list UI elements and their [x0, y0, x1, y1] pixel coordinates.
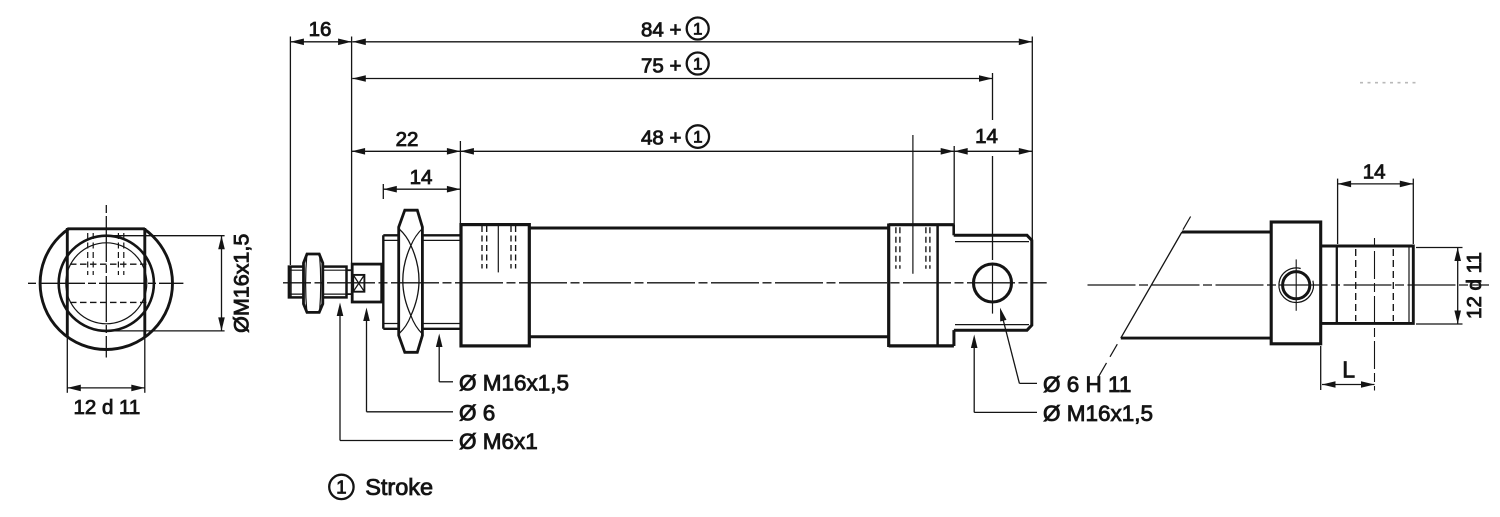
dimension 14 rear line	[954, 148, 1032, 155]
svg-text:L: L	[1342, 356, 1355, 382]
svg-text:Ø 6: Ø 6	[459, 400, 495, 425]
right view hole vertical centerline	[1295, 259, 1297, 310]
svg-text:48 +: 48 +	[641, 127, 681, 150]
dimension 14 collar extension stub	[382, 184, 384, 199]
right view dim L line	[1322, 381, 1375, 388]
extension line at clevis end	[1031, 37, 1033, 241]
end view right flat chord	[143, 228, 146, 337]
dimension 16 text	[309, 18, 332, 41]
front head block	[461, 225, 529, 346]
dimension OM16x1,5 top extension line	[106, 235, 225, 237]
right view tube top	[1182, 231, 1271, 234]
right view thread start edge	[1336, 246, 1338, 323]
svg-text:84 +: 84 +	[641, 19, 681, 42]
end view top chord edge	[67, 227, 145, 230]
end view vertical centerline	[105, 205, 107, 358]
dimension 84+stroke line	[352, 39, 1032, 46]
right view clevis extension outline	[1321, 246, 1414, 323]
rod neck	[347, 270, 353, 294]
dimension 16 line	[290, 39, 351, 46]
main view horizontal centerline	[283, 282, 1047, 284]
dimension OM16x1,5 bottom extension line	[106, 330, 225, 332]
front port hidden thread lines	[482, 226, 516, 269]
svg-text:Ø M16x1,5: Ø M16x1,5	[459, 370, 569, 395]
end view left flat chord	[66, 228, 69, 337]
front port centerline	[497, 225, 499, 273]
dimension 14 rear text	[975, 125, 998, 148]
svg-text:Ø M6x1: Ø M6x1	[459, 429, 538, 454]
rear clevis tang outline	[954, 235, 1032, 346]
label OM6x1 rod thread	[459, 429, 538, 454]
dimension OM16x1,5 line with arrows	[218, 236, 225, 331]
rod hex nut	[304, 254, 323, 312]
bearing collar outer thread lines	[383, 235, 461, 328]
svg-text:1: 1	[336, 477, 346, 498]
extension line at head left	[459, 141, 461, 224]
label O6H11 hole	[1043, 372, 1131, 397]
legend stroke text	[365, 474, 433, 500]
svg-text:ØM16x1,5: ØM16x1,5	[230, 234, 254, 333]
faint scan artifact dotted line	[1360, 82, 1416, 84]
right view end face inner line	[1408, 246, 1410, 323]
right view thread depth centerline	[1374, 238, 1376, 391]
dimension 75+stroke text	[641, 53, 709, 78]
svg-text:12 d 11: 12 d 11	[1463, 252, 1486, 319]
bearing collar minor thread lines	[383, 240, 461, 323]
dimension 48+stroke text	[641, 125, 709, 149]
rod wrench flats block	[352, 264, 382, 302]
svg-text:14: 14	[410, 166, 433, 189]
svg-text:16: 16	[309, 18, 332, 41]
end view hidden hole lines A	[88, 233, 94, 275]
right view tube bottom	[1121, 337, 1271, 340]
end view hidden hole lines B	[118, 233, 123, 275]
cylinder tube	[529, 228, 888, 337]
dimension 12d11 line with arrows	[67, 385, 145, 392]
right view break line	[1098, 217, 1191, 378]
right view hole outer thread circle	[1279, 268, 1314, 303]
dimension OM16x1,5 text (rotated)	[230, 234, 254, 333]
leader OM6x1 rod thread	[337, 303, 453, 441]
dimension 48+stroke line	[460, 148, 954, 155]
label OM16x1,5 front	[459, 370, 569, 395]
end view hidden port line upper	[70, 263, 147, 265]
wrench flats square with cross	[353, 275, 364, 292]
end view thread minor circle	[66, 243, 147, 324]
piston rod thread M6 outline	[289, 267, 347, 298]
right view dim 12d11 line	[1454, 248, 1461, 325]
dimension 14 collar line	[383, 186, 460, 193]
right view dim 14 extensions	[1338, 179, 1414, 244]
leader O6H11 hole	[1000, 308, 1037, 384]
rear clevis inner edges	[955, 242, 1029, 325]
dimension 22 line	[352, 148, 461, 155]
right view hidden thread lines	[1356, 249, 1394, 321]
extension line at flats face	[351, 37, 353, 264]
leader O6 rod	[363, 308, 453, 412]
svg-text:1: 1	[693, 20, 702, 39]
dimension 12d11 text	[73, 396, 140, 419]
svg-text:22: 22	[396, 128, 419, 151]
right view dim L left extension	[1320, 346, 1322, 390]
rear port hidden thread lines	[896, 227, 930, 268]
svg-text:1: 1	[693, 128, 702, 147]
right view dim L text	[1342, 356, 1355, 382]
dimension 12d11 right extension line	[144, 337, 146, 393]
end view thread major circle (M16x1,5)	[59, 236, 154, 331]
extension line at hole center	[992, 73, 994, 260]
svg-text:75 +: 75 +	[641, 55, 681, 78]
right view dim 12d11 extensions	[1416, 248, 1463, 325]
svg-text:12 d 11: 12 d 11	[73, 396, 140, 419]
svg-text:Ø M16x1,5: Ø M16x1,5	[1043, 401, 1153, 426]
clevis hole vertical centerline	[992, 263, 994, 314]
label O6 rod	[459, 400, 495, 425]
right view dim 14 text	[1363, 160, 1386, 183]
label OM16x1,5 rear	[1043, 401, 1153, 426]
right view hole	[1283, 272, 1310, 299]
dimension 84+stroke text	[641, 18, 709, 42]
dimension 12d11 left extension line	[66, 336, 68, 393]
rear port centerline	[912, 135, 914, 274]
leader OM16x1,5 rear	[971, 335, 1037, 413]
clevis hole O6H11	[974, 264, 1012, 302]
dimension 22 text	[396, 128, 419, 151]
end view outer circle (cylinder front face)	[40, 208, 172, 350]
end view horizontal centerline	[28, 282, 183, 284]
svg-text:Ø 6 H 11: Ø 6 H 11	[1043, 372, 1131, 397]
dimension 75+stroke line	[352, 75, 992, 82]
right view dim 12d11 text (rotated)	[1463, 252, 1486, 319]
right view dim 14 line	[1338, 181, 1414, 188]
bearing collar face	[382, 235, 384, 328]
extension line at rod tip	[289, 37, 291, 266]
dimension 14 collar text	[410, 166, 433, 189]
svg-text:14: 14	[975, 125, 998, 148]
rear head block	[889, 224, 954, 348]
leader OM16x1,5 front	[436, 334, 453, 382]
end view hidden port line lower	[70, 301, 147, 303]
right view horizontal centerline	[1088, 284, 1490, 286]
svg-text:14: 14	[1363, 160, 1386, 183]
legend stroke symbol	[329, 475, 353, 499]
extension line at rear head right	[953, 146, 955, 225]
right view clevis block	[1271, 222, 1321, 344]
svg-text:Stroke: Stroke	[365, 474, 433, 500]
rear head inner edge	[936, 225, 939, 346]
mounting nut (across corners)	[399, 210, 423, 352]
svg-text:1: 1	[693, 55, 702, 74]
